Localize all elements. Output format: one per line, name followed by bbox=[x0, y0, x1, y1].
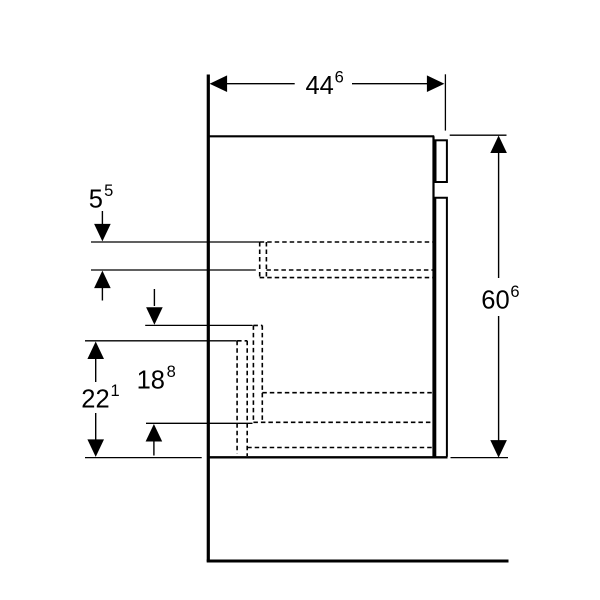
dimension 44.6 right arrowhead bbox=[427, 75, 445, 92]
dimension 18.8 upper arrow tail bbox=[153, 289, 155, 306]
dimension 60.6 bottom arrowhead bbox=[490, 440, 507, 458]
dimension 60.6 line lower segment bbox=[498, 316, 500, 442]
dimension 18.8 upper arrowhead (down) bbox=[146, 307, 163, 325]
cabinet top line bbox=[208, 135, 434, 137]
inner drawer (upper) dashed bottom bbox=[260, 277, 434, 279]
svg-text:5: 5 bbox=[89, 186, 103, 214]
dimension 5.5 upper arrowhead (down) bbox=[94, 224, 111, 242]
cabinet right side panel bbox=[432, 136, 434, 457]
svg-text:5: 5 bbox=[104, 182, 113, 200]
plinth bottom line bbox=[207, 560, 509, 563]
inner drawer (upper) dashed top bbox=[260, 241, 434, 243]
dimension 60.6 line upper segment bbox=[498, 151, 500, 278]
dimension 5.5 upper arrow tail bbox=[101, 211, 103, 226]
lower drawer B dashed left inner bbox=[246, 341, 248, 456]
dimension 44.6 line left segment bbox=[226, 83, 295, 85]
extension line 44.6 right vertical bbox=[444, 74, 446, 130]
lower drawer B dashed bottom bbox=[247, 447, 433, 449]
dimension 44.6 left arrowhead bbox=[210, 75, 228, 92]
dimension 22.1 line upper segment bbox=[95, 358, 97, 383]
dimension 22.1 lower arrowhead (down) bbox=[87, 439, 104, 457]
lower drawer A dashed step shelf bbox=[262, 392, 433, 394]
extension line 60.6 bottom bbox=[451, 457, 509, 459]
svg-text:6: 6 bbox=[510, 283, 519, 301]
extension line 5.5 bottom bbox=[91, 269, 256, 271]
extension line 60.6 top bbox=[450, 134, 507, 136]
cabinet bottom line bbox=[207, 456, 448, 458]
svg-text:22: 22 bbox=[81, 386, 109, 414]
extension line 5.5 top bbox=[91, 241, 260, 243]
dimension 44.6 line right segment bbox=[352, 83, 428, 85]
svg-text:60: 60 bbox=[481, 287, 509, 315]
svg-text:44: 44 bbox=[306, 72, 334, 100]
svg-text:1: 1 bbox=[111, 382, 120, 400]
inner drawer (upper) dashed left outer bbox=[259, 242, 261, 278]
lower drawer B dashed left outer bbox=[236, 341, 238, 454]
dimension 5.5 lower arrow tail bbox=[101, 287, 103, 301]
svg-text:18: 18 bbox=[137, 366, 165, 394]
extension line 22.1 bottom bbox=[85, 457, 202, 459]
lower drawer A dashed left inner bbox=[261, 325, 263, 422]
dimension 22.1 upper arrowhead (up) bbox=[87, 342, 104, 360]
dimension 5.5 lower arrowhead (up) bbox=[94, 271, 111, 289]
inner drawer (upper) dashed left inner bbox=[265, 242, 267, 278]
wall line (left vertical) bbox=[207, 75, 210, 562]
dimension 60.6 top arrowhead bbox=[490, 136, 507, 154]
dimension 18.8 lower arrow tail bbox=[153, 440, 155, 456]
inner drawer (upper) dashed middle bottom bbox=[266, 269, 433, 271]
lower drawer A dashed top bbox=[253, 324, 262, 326]
extension line 22.1 top bbox=[85, 340, 237, 342]
svg-text:8: 8 bbox=[167, 363, 176, 381]
top flap front profile bbox=[436, 140, 447, 182]
svg-text:6: 6 bbox=[335, 69, 344, 87]
dimension 18.8 lower arrowhead (up) bbox=[146, 424, 163, 442]
lower drawer A dashed bottom bbox=[253, 421, 433, 423]
lower drawer A dashed left outer bbox=[252, 325, 254, 422]
extension line 18.8 bottom bbox=[146, 422, 253, 424]
lower drawer B dashed top bbox=[237, 340, 247, 342]
extension line 18.8 top bbox=[145, 324, 252, 326]
dimension 22.1 line lower segment bbox=[95, 413, 97, 441]
door front profile bbox=[435, 198, 447, 457]
